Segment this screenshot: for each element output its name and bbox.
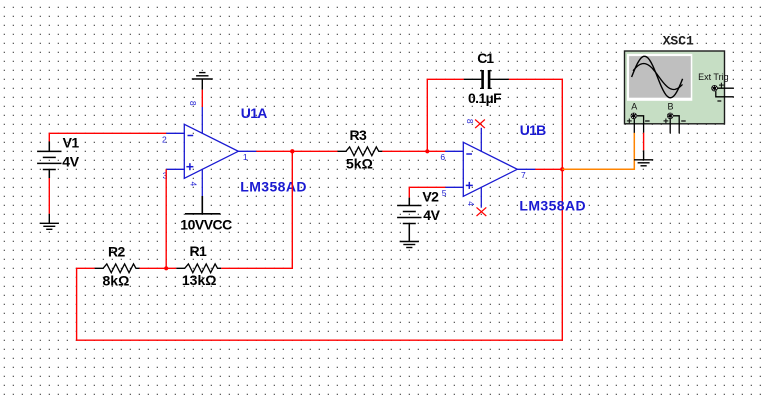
Ext Trig stubs	[716, 88, 734, 97]
svg-text:LM358AD: LM358AD	[519, 197, 586, 213]
wire R2 right lead to junction to R1 left	[140, 267, 177, 269]
scope screen	[627, 54, 692, 101]
svg-text:V1: V1	[63, 135, 80, 151]
wire output junction to R3 left	[292, 150, 337, 152]
op-amp U1A	[166, 107, 256, 196]
junction dot R1/R2	[164, 266, 168, 270]
wire U1B output to junction	[535, 168, 562, 170]
channel B plus	[664, 119, 669, 124]
svg-text:8: 8	[465, 119, 475, 124]
channel A minus stub	[637, 116, 644, 133]
channel A plus	[627, 119, 632, 124]
Ext Trig minus	[717, 100, 721, 102]
svg-text:7: 7	[521, 170, 526, 180]
resistor R3	[338, 147, 383, 156]
channel B input stub	[669, 119, 671, 133]
svg-text:6: 6	[440, 152, 445, 162]
U1B plus sign	[466, 182, 473, 189]
wire A minus to ground (red)	[643, 133, 645, 151]
battery V1	[37, 141, 61, 178]
channel A terminal	[631, 113, 637, 119]
svg-text:13kΩ: 13kΩ	[182, 272, 217, 288]
svg-text:U1B: U1B	[520, 122, 546, 138]
svg-text:LM358AD: LM358AD	[240, 178, 307, 194]
svg-text:V2: V2	[422, 189, 439, 205]
wire R3 right to C1 junction to U1B pin6	[382, 150, 445, 152]
wire V1 top to U1A pin2	[49, 133, 166, 141]
VCC symbol (flipped ground) above U1A	[192, 73, 213, 90]
svg-text:5kΩ: 5kΩ	[346, 156, 373, 172]
wire U1A output to junction and down to R1	[256, 150, 292, 152]
svg-text:B: B	[668, 102, 674, 112]
wire U1A top power pin	[201, 90, 203, 107]
channel B minus	[681, 120, 686, 122]
resistor R1	[176, 264, 221, 273]
svg-text:1: 1	[243, 152, 248, 162]
resistor R2	[95, 264, 140, 273]
svg-text:4: 4	[188, 181, 198, 186]
wire C1 right leg down to output junction	[509, 79, 562, 169]
svg-text:0.1µF: 0.1µF	[468, 90, 502, 106]
ground GND1	[40, 214, 59, 230]
wire output junction down to R1 right	[221, 151, 292, 268]
unconnected X top of U1B	[475, 120, 485, 129]
channel A input stub	[633, 119, 635, 133]
svg-text:8kΩ: 8kΩ	[103, 272, 130, 288]
svg-text:4V: 4V	[62, 153, 79, 169]
wire C1 feedback left leg	[427, 79, 464, 151]
op-amp U1B	[445, 128, 535, 208]
Ext Trig terminal	[711, 85, 717, 91]
wire pin3 down to R1/R2 junction	[165, 169, 167, 268]
Ext Trig plus	[719, 83, 724, 88]
svg-text:8: 8	[188, 101, 198, 106]
svg-text:R2: R2	[108, 244, 126, 260]
U1A plus sign	[186, 163, 193, 170]
scope trace channel A	[632, 56, 683, 98]
ground GND2 below V2	[400, 242, 419, 248]
wire V1 bottom to ground	[48, 178, 50, 214]
svg-text:U1A: U1A	[241, 105, 267, 121]
oscilloscope XSC1 body	[625, 51, 725, 124]
ground GND3 near scope	[634, 150, 653, 166]
battery V2	[397, 198, 421, 242]
capacitor C1	[464, 70, 509, 89]
wire output to scope channel A (orange)	[562, 133, 634, 170]
channel B minus stub	[673, 116, 679, 133]
junction dot at C1 tap	[425, 149, 429, 153]
scope trace channel B	[633, 64, 683, 90]
U1B minus sign	[466, 153, 472, 155]
svg-text:Ext Trig: Ext Trig	[698, 72, 729, 82]
svg-text:A: A	[631, 102, 637, 112]
junction dot at U1B output	[560, 167, 564, 171]
VCC bar symbol below U1A	[185, 196, 220, 214]
svg-text:XSC1: XSC1	[663, 33, 694, 48]
unconnected X bottom of U1B	[477, 207, 487, 216]
svg-text:R3: R3	[350, 127, 368, 143]
channel B terminal	[667, 113, 673, 119]
junction dot at U1A output	[290, 149, 294, 153]
svg-text:R1: R1	[190, 243, 208, 259]
svg-text:4V: 4V	[423, 207, 440, 223]
svg-text:5: 5	[442, 188, 447, 198]
svg-text:4: 4	[466, 201, 476, 206]
svg-text:10VVCC: 10VVCC	[180, 217, 232, 233]
U1A minus sign	[188, 135, 194, 137]
svg-text:C1: C1	[477, 50, 494, 66]
channel A minus	[645, 120, 650, 122]
wire V2 to U1B pin5	[409, 187, 445, 197]
svg-text:2: 2	[162, 134, 167, 144]
wire R2 left to bottom loop	[77, 169, 563, 340]
